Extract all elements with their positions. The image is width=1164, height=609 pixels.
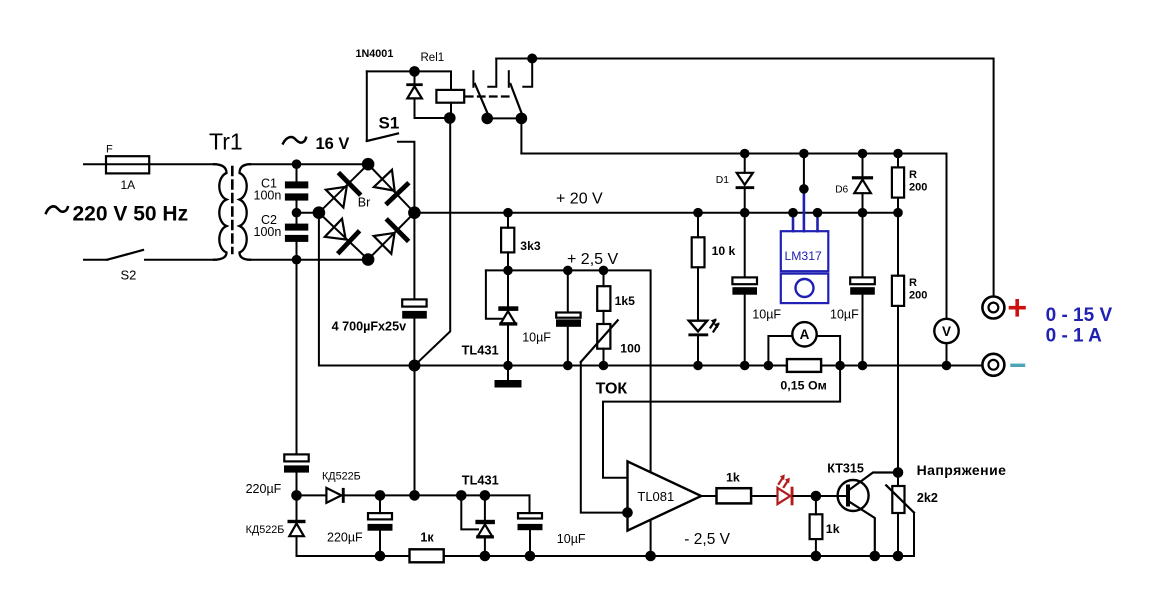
svg-text:10µF: 10µF xyxy=(830,307,859,321)
node: LM317 pin right xyxy=(813,208,823,218)
svg-text:- 2,5 V: - 2,5 V xyxy=(684,531,730,548)
node: bus at 4700uF xyxy=(409,360,421,372)
resistor 10k xyxy=(692,213,705,319)
svg-text:+ 2,5 V: + 2,5 V xyxy=(567,251,618,268)
node: pump at TL431 ref xyxy=(456,490,467,501)
svg-text:Br: Br xyxy=(358,195,371,209)
wire: +20V bus xyxy=(414,212,898,214)
node: +2.5 at TL431 xyxy=(503,266,513,276)
wire: LM317 middle pin to mid rail xyxy=(803,154,805,189)
svg-text:100: 100 xyxy=(620,342,641,356)
node: bridge left xyxy=(313,206,326,219)
diode 1N4001 xyxy=(406,71,422,118)
svg-text:R: R xyxy=(909,277,917,289)
node: -2.5 rail at op-amp xyxy=(645,551,656,562)
svg-text:200: 200 xyxy=(909,290,927,302)
svg-text:D6: D6 xyxy=(835,185,848,196)
wire: C2 leads xyxy=(296,213,298,224)
svg-text:10µF: 10µF xyxy=(752,307,781,321)
svg-text:100n: 100n xyxy=(254,225,282,239)
wire: negative bus xyxy=(415,365,983,367)
svg-text:LM317: LM317 xyxy=(785,249,822,263)
svg-text:0 - 1 A: 0 - 1 A xyxy=(1046,326,1103,347)
svg-text:Rel1: Rel1 xyxy=(421,52,445,64)
capacitor 220uF (upper) xyxy=(284,454,309,495)
wire: drop to 220uF xyxy=(296,260,298,455)
svg-text:Напряжение: Напряжение xyxy=(917,462,1007,478)
node: 220uF bottom xyxy=(291,490,302,501)
node: op-amp noninverting input xyxy=(622,507,633,518)
node: bridge right xyxy=(408,206,421,219)
transformer Tr1 secondary winding xyxy=(240,164,251,260)
svg-text:F: F xyxy=(106,143,113,155)
node: bus at 100 pot xyxy=(599,361,609,371)
node: LM317 pin left xyxy=(788,208,798,218)
node: D6 top xyxy=(858,149,868,159)
node: -2.5 rail at 10uF xyxy=(525,551,536,562)
node: 10k top xyxy=(693,208,703,218)
capacitor 220uF (lower) xyxy=(368,495,393,556)
wire: op-amp V- to -2.5 rail xyxy=(650,520,652,556)
svg-text:10µF: 10µF xyxy=(557,532,586,546)
svg-text:4 700µFx25v: 4 700µFx25v xyxy=(332,320,406,334)
node: relay coil bottom xyxy=(444,112,456,124)
relay linkage dashed line xyxy=(466,95,509,97)
relay contact 1 seat and riser xyxy=(488,59,496,87)
wire: C1 leads xyxy=(296,164,298,181)
svg-text:S2: S2 xyxy=(121,268,137,283)
resistor 1k (op-amp output) xyxy=(701,488,777,503)
svg-text:1k: 1k xyxy=(826,522,840,536)
svg-text:1k5: 1k5 xyxy=(615,294,636,308)
node: bus at 10uF xyxy=(563,361,573,371)
node: C1 top xyxy=(292,159,302,169)
node: LED to base xyxy=(811,491,822,502)
wire: TL431 ref bracket xyxy=(486,270,502,318)
minus sign xyxy=(1012,364,1024,367)
ammeter loop wires xyxy=(768,336,840,366)
wire: top rail to + terminal xyxy=(496,59,993,297)
node: -2.5 rail at emitter xyxy=(870,551,881,562)
resistor 1k5 xyxy=(597,270,610,324)
wire: 4700uF to negative bus xyxy=(413,319,415,366)
svg-text:220 V 50 Hz: 220 V 50 Hz xyxy=(73,203,189,226)
node: LM317 adj mid xyxy=(799,184,809,194)
regulator LM317 xyxy=(781,189,829,303)
node: pump at 220uF lower xyxy=(375,490,386,501)
svg-text:10 k: 10 k xyxy=(712,244,736,258)
svg-text:ТОК: ТОК xyxy=(596,380,628,397)
switch S1 lever xyxy=(367,134,398,142)
svg-text:220µF: 220µF xyxy=(327,530,363,544)
potentiometer 100 xyxy=(581,320,618,365)
relay contact 1 fixed post xyxy=(472,71,474,87)
TL431 (upper) xyxy=(498,270,518,365)
wire: diode bottom to coil bottom node xyxy=(415,103,452,118)
node: -2.5 rail at TL431 xyxy=(480,551,491,562)
svg-text:1к: 1к xyxy=(420,531,434,545)
node: bridge top xyxy=(362,158,375,171)
wire: voltmeter to negative bus xyxy=(946,343,948,365)
node: bus at voltmeter xyxy=(942,361,952,371)
wire: S1 fixed contact to bridge right node xyxy=(398,142,414,213)
capacitor 10uF (LM317 output) xyxy=(850,213,875,366)
relay contact 2 lever xyxy=(511,84,523,116)
node: pump at TL431 xyxy=(480,490,491,501)
resistor 1k (rail) xyxy=(410,549,444,562)
bridge diode bottom-left xyxy=(324,218,358,252)
resistor 1k (base divider) xyxy=(810,496,823,556)
svg-text:КТ315: КТ315 xyxy=(827,461,864,475)
node: bus at 10uF input xyxy=(740,361,750,371)
wire: C-midpoint to bridge left node xyxy=(297,212,319,214)
bridge diode top-right xyxy=(373,169,407,203)
node: 1N4001 anode xyxy=(409,66,420,77)
node: -2.5 rail at 220uF xyxy=(375,551,386,562)
svg-text:2k2: 2k2 xyxy=(917,491,938,505)
node: secondary bottom xyxy=(292,255,302,265)
LED indicator (black) xyxy=(688,318,719,365)
potentiometer 2k2 xyxy=(886,485,914,556)
resistor R200 (lower) xyxy=(892,276,904,486)
svg-text:КД522Б: КД522Б xyxy=(246,524,285,536)
node: LM317 adj top xyxy=(799,149,809,159)
wire: secondary top to bridge xyxy=(248,163,368,165)
capacitor 10uF (LM317 input) xyxy=(732,213,757,366)
output terminal + xyxy=(982,297,1004,319)
svg-text:R: R xyxy=(909,169,917,181)
output terminal - xyxy=(982,354,1004,376)
wire: bridge right node to 4700uF xyxy=(413,213,415,300)
relay contact 2 seat and riser xyxy=(523,59,532,87)
svg-text:+ 20 V: + 20 V xyxy=(556,190,603,207)
TL431 (lower) xyxy=(475,495,495,556)
node: D1 bottom xyxy=(740,208,750,218)
svg-text:D1: D1 xyxy=(716,175,730,186)
svg-text:1N4001: 1N4001 xyxy=(356,48,394,60)
node: R200 mid xyxy=(893,208,903,218)
plus sign xyxy=(1011,301,1025,315)
wire: mains top lead xyxy=(84,163,216,165)
AC source tilde symbol xyxy=(46,206,68,213)
wire: mid rail to V meter xyxy=(521,154,946,320)
wire: contact 2 down to mid rail xyxy=(520,118,522,153)
capacitor 4700uF xyxy=(402,299,427,318)
bridge diode top-left xyxy=(325,174,359,208)
relay contact 1 lever xyxy=(475,84,489,116)
label ~ 16 V tilde xyxy=(283,137,306,144)
diode D6 xyxy=(852,154,873,213)
switch S1 wire from relay node xyxy=(366,71,368,141)
svg-text:TL431: TL431 xyxy=(462,472,499,487)
wire: -2.5V rail xyxy=(297,555,915,557)
svg-text:V: V xyxy=(942,324,951,339)
node: top rail junction xyxy=(527,54,537,64)
fuse F xyxy=(106,156,149,173)
node: +2.5 at 1k5 xyxy=(599,266,609,276)
wire: negative bus to charge-pump node xyxy=(414,366,416,496)
diode KD522B (horizontal) xyxy=(297,488,530,503)
diode D1 xyxy=(736,154,755,213)
relay contact 2 fixed post xyxy=(508,71,510,87)
wire: relay top xyxy=(367,71,451,90)
wire: bridge left node down to negative bus corner xyxy=(319,213,415,366)
svg-text:1k: 1k xyxy=(726,470,740,484)
node: bus at LED xyxy=(693,361,703,371)
node: contact 2 bottom xyxy=(516,113,528,125)
node: R200 top xyxy=(893,149,903,159)
svg-text:10µF: 10µF xyxy=(522,330,551,344)
wire: relay coil to negative bus (long drop with dogleg) xyxy=(415,118,451,366)
svg-text:100n: 100n xyxy=(254,189,282,203)
ground symbol xyxy=(495,366,522,388)
wire: mains bottom lead left xyxy=(84,259,107,261)
wire: current feedback from shunt to op-amp xyxy=(603,366,840,478)
svg-text:S1: S1 xyxy=(379,113,400,132)
svg-text:КД522Б: КД522Б xyxy=(322,471,361,483)
node: D6 bottom xyxy=(858,208,868,218)
capacitor C2 xyxy=(285,224,308,242)
node: -2.5 rail at 1k xyxy=(811,551,822,562)
ammeter A xyxy=(792,322,816,346)
node: shunt right xyxy=(835,361,845,371)
node: shunt left xyxy=(764,361,774,371)
shunt resistor 0,15 Om xyxy=(787,359,821,372)
node: C mid xyxy=(292,208,302,218)
svg-text:TL431: TL431 xyxy=(462,342,499,357)
relay coil Rel1 xyxy=(436,90,464,103)
node: -2.5 rail at 2k2 xyxy=(893,551,904,562)
wire: bridge arms xyxy=(319,164,415,259)
transformer Tr1 primary winding xyxy=(214,164,227,260)
node: D1 top xyxy=(740,149,750,159)
wire: secondary bottom to bridge xyxy=(248,259,368,261)
capacitor C1 xyxy=(285,181,308,200)
diode KD522B (vertical) xyxy=(288,495,306,556)
svg-text:200: 200 xyxy=(909,182,927,194)
resistor 3k3 xyxy=(501,213,514,271)
node: bus at 10uF output xyxy=(858,361,868,371)
TL431 (lower) ref bracket xyxy=(461,495,478,529)
wire: +2.5V rail xyxy=(486,270,651,472)
LED (red) xyxy=(778,474,794,505)
op-amp U1 TL081 xyxy=(628,461,702,530)
wire: mains bottom lead right xyxy=(145,259,216,261)
svg-text:1A: 1A xyxy=(121,178,136,192)
svg-text:A: A xyxy=(800,327,810,342)
svg-text:3k3: 3k3 xyxy=(520,239,541,253)
bridge diode bottom-right xyxy=(373,221,407,255)
transistor KT315 xyxy=(838,473,898,557)
node: collector at 2k2 xyxy=(893,467,904,478)
svg-text:0,15 Ом: 0,15 Ом xyxy=(780,379,826,393)
node: bridge bottom xyxy=(362,253,375,266)
svg-text:0 - 15 V: 0 - 15 V xyxy=(1046,305,1113,326)
node: pump at bus drop xyxy=(409,490,420,501)
node: 3k3 top xyxy=(503,208,513,218)
node: contact 1 bottom xyxy=(481,113,493,125)
capacitor 10uF (lower) xyxy=(518,495,543,556)
switch S2 lever xyxy=(107,250,143,260)
svg-text:Tr1: Tr1 xyxy=(209,129,243,155)
wire: 100 pot wiper to op-amp input xyxy=(581,362,628,513)
wire: between contact bottoms xyxy=(487,117,521,119)
capacitor 10uF (at TL431) xyxy=(556,270,581,365)
voltmeter V xyxy=(934,319,958,343)
node: +2.5 at 10uF xyxy=(563,266,573,276)
resistor R200 (upper) xyxy=(892,154,904,276)
wire: LED to transistor base xyxy=(794,495,847,497)
svg-text:16 V: 16 V xyxy=(316,135,350,153)
node: bus at TL431 xyxy=(503,361,513,371)
svg-text:220µF: 220µF xyxy=(246,482,282,496)
transformer Tr1 core xyxy=(231,167,234,253)
svg-text:TL081: TL081 xyxy=(637,489,674,504)
